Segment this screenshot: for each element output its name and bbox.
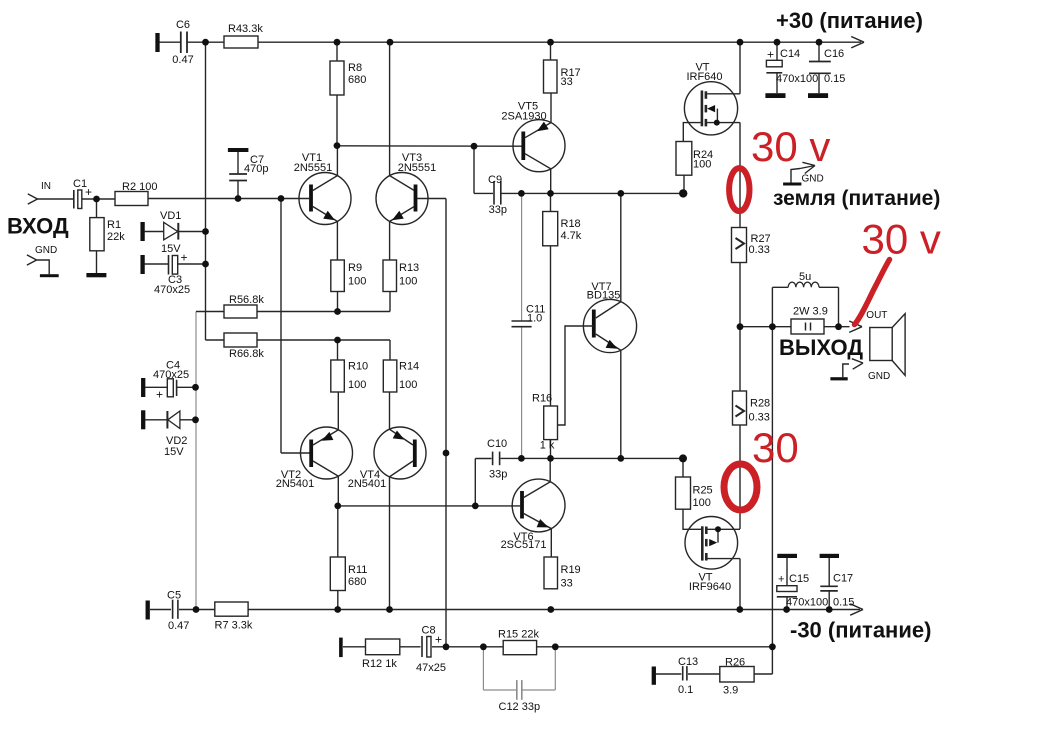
svg-text:+: + xyxy=(778,574,784,586)
svg-text:ВХОД: ВХОД xyxy=(7,214,69,239)
svg-text:IN: IN xyxy=(41,181,51,192)
svg-text:100: 100 xyxy=(399,379,417,391)
svg-text:C15: C15 xyxy=(789,573,809,585)
svg-text:0.33: 0.33 xyxy=(749,244,770,256)
svg-text:1.0: 1.0 xyxy=(527,313,542,325)
svg-text:2W 3.9: 2W 3.9 xyxy=(793,306,828,318)
svg-text:0.15: 0.15 xyxy=(833,597,854,609)
svg-text:+: + xyxy=(767,48,774,62)
svg-text:C8: C8 xyxy=(422,625,436,637)
svg-text:R66.8k: R66.8k xyxy=(229,348,264,360)
svg-text:33: 33 xyxy=(561,578,573,590)
svg-text:0.47: 0.47 xyxy=(168,620,189,632)
svg-text:2N5551: 2N5551 xyxy=(294,162,333,174)
svg-text:C12 33p: C12 33p xyxy=(499,701,541,713)
svg-text:C5: C5 xyxy=(167,590,181,602)
svg-text:IRF640: IRF640 xyxy=(686,71,722,83)
svg-text:IRF9640: IRF9640 xyxy=(689,581,731,593)
svg-text:3.9: 3.9 xyxy=(723,685,738,697)
svg-text:R12 1k: R12 1k xyxy=(362,658,397,670)
svg-text:VD1: VD1 xyxy=(160,210,181,222)
svg-text:0.15: 0.15 xyxy=(824,73,845,85)
svg-text:33: 33 xyxy=(561,76,573,88)
svg-text:R43.3k: R43.3k xyxy=(228,23,263,35)
svg-text:47x25: 47x25 xyxy=(416,662,446,674)
svg-text:+: + xyxy=(435,633,442,647)
svg-text:C10: C10 xyxy=(487,438,507,450)
svg-text:R15 22k: R15 22k xyxy=(498,629,539,641)
svg-text:470x100: 470x100 xyxy=(786,597,828,609)
svg-text:R2 100: R2 100 xyxy=(122,181,157,193)
svg-text:100: 100 xyxy=(693,159,711,171)
svg-text:4.7k: 4.7k xyxy=(561,230,582,242)
svg-text:30 v: 30 v xyxy=(862,216,941,263)
svg-text:C17: C17 xyxy=(833,573,853,585)
svg-text:C6: C6 xyxy=(176,19,190,31)
svg-text:2SC5171: 2SC5171 xyxy=(501,539,547,551)
svg-text:470x25: 470x25 xyxy=(153,369,189,381)
svg-text:R13: R13 xyxy=(399,262,419,274)
svg-text:GND: GND xyxy=(802,174,824,185)
svg-text:680: 680 xyxy=(348,576,366,588)
svg-text:680: 680 xyxy=(348,74,366,86)
svg-text:100: 100 xyxy=(348,379,366,391)
svg-text:15V: 15V xyxy=(161,243,181,255)
svg-text:470x25: 470x25 xyxy=(154,284,190,296)
svg-text:ВЫХОД: ВЫХОД xyxy=(779,335,863,360)
svg-text:30 v: 30 v xyxy=(751,123,830,170)
svg-text:+: + xyxy=(85,185,92,199)
svg-text:R25: R25 xyxy=(693,485,713,497)
svg-text:R1: R1 xyxy=(107,219,121,231)
svg-text:R26: R26 xyxy=(725,657,745,669)
svg-text:15V: 15V xyxy=(164,446,184,458)
svg-text:OUT: OUT xyxy=(866,310,887,321)
svg-text:R8: R8 xyxy=(348,62,362,74)
svg-text:+: + xyxy=(181,251,188,265)
svg-text:R7 3.3k: R7 3.3k xyxy=(215,620,253,632)
svg-text:R9: R9 xyxy=(348,262,362,274)
svg-text:22k: 22k xyxy=(107,231,125,243)
svg-text:R16: R16 xyxy=(532,393,552,405)
svg-text:1 k: 1 k xyxy=(540,440,555,452)
svg-text:2N5551: 2N5551 xyxy=(398,162,437,174)
svg-text:33p: 33p xyxy=(489,469,507,481)
svg-text:0.47: 0.47 xyxy=(172,54,193,66)
svg-text:R28: R28 xyxy=(750,398,770,410)
svg-text:-30 (питание): -30 (питание) xyxy=(790,618,931,643)
svg-text:C14: C14 xyxy=(780,48,800,60)
svg-text:C13: C13 xyxy=(678,656,698,668)
svg-text:R18: R18 xyxy=(561,218,581,230)
svg-text:GND: GND xyxy=(868,371,890,382)
svg-text:2N5401: 2N5401 xyxy=(348,478,387,490)
svg-text:2N5401: 2N5401 xyxy=(276,478,315,490)
svg-text:470p: 470p xyxy=(244,163,268,175)
svg-text:470x100: 470x100 xyxy=(776,73,818,85)
svg-text:GND: GND xyxy=(35,245,57,256)
svg-text:R56.8k: R56.8k xyxy=(229,294,264,306)
svg-text:+30 (питание): +30 (питание) xyxy=(776,8,923,33)
svg-text:30: 30 xyxy=(752,424,799,471)
svg-text:R10: R10 xyxy=(348,361,368,373)
svg-text:C9: C9 xyxy=(488,174,502,186)
svg-text:0.33: 0.33 xyxy=(749,412,770,424)
svg-text:+: + xyxy=(156,388,163,402)
svg-text:100: 100 xyxy=(399,276,417,288)
svg-text:земля (питание): земля (питание) xyxy=(773,187,940,210)
svg-text:33p: 33p xyxy=(489,204,507,216)
svg-text:R19: R19 xyxy=(561,564,581,576)
svg-text:R14: R14 xyxy=(399,361,419,373)
svg-text:2SA1930: 2SA1930 xyxy=(501,111,546,123)
svg-text:100: 100 xyxy=(693,497,711,509)
svg-text:R11: R11 xyxy=(348,564,367,576)
svg-text:100: 100 xyxy=(348,276,366,288)
svg-text:C16: C16 xyxy=(824,48,844,60)
svg-text:0.1: 0.1 xyxy=(678,684,693,696)
svg-text:BD135: BD135 xyxy=(587,290,621,302)
svg-text:5u: 5u xyxy=(799,271,811,283)
